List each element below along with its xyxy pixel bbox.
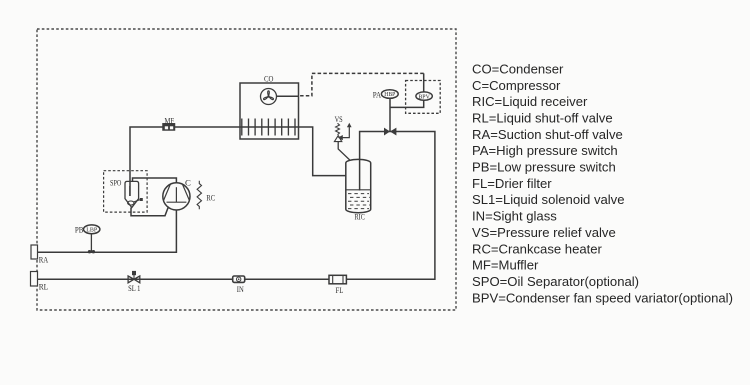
legend — [472, 61, 733, 305]
svg-text:C: C — [185, 178, 191, 188]
svg-text:RC: RC — [206, 193, 215, 203]
liquid receiver RIC — [346, 159, 371, 212]
wire suction: compressor bottom to RA line — [38, 210, 177, 252]
pressure switch PB (LP) — [84, 225, 100, 253]
condenser CO box — [240, 83, 299, 139]
wire PA branch — [389, 98, 391, 131]
svg-text:VS=Pressure relief valve: VS=Pressure relief valve — [472, 225, 616, 240]
svg-text:LBP: LBP — [86, 227, 98, 234]
compressor C — [163, 183, 190, 210]
svg-text:SL1=Liquid solenoid valve: SL1=Liquid solenoid valve — [472, 192, 625, 207]
svg-text:CO=Condenser: CO=Condenser — [472, 61, 564, 76]
svg-text:SL 1: SL 1 — [128, 283, 140, 293]
oil separator SPO dashed box — [104, 171, 148, 212]
svg-text:SPO: SPO — [110, 178, 121, 188]
condenser fins — [242, 119, 295, 136]
wire liquid line: RIC dip tube, valve line, down right side, bottom RL line — [38, 132, 435, 280]
svg-text:SPO=Oil Separator(optional): SPO=Oil Separator(optional) — [472, 274, 639, 289]
muffler MF — [163, 123, 176, 130]
svg-text:FL: FL — [336, 285, 344, 295]
svg-text:PA=High pressure switch: PA=High pressure switch — [472, 143, 618, 158]
condenser fan — [261, 89, 277, 105]
drier filter FL — [329, 275, 346, 284]
svg-text:RA=Suction shut-off valve: RA=Suction shut-off valve — [472, 127, 623, 142]
svg-text:PB=Low pressure switch: PB=Low pressure switch — [472, 160, 616, 175]
svg-text:PA: PA — [373, 90, 382, 100]
wire BPV branch — [390, 73, 424, 107]
svg-text:RIC=Liquid receiver: RIC=Liquid receiver — [472, 94, 588, 109]
svg-text:MF=Muffler: MF=Muffler — [472, 258, 539, 273]
wire fan to condenser box edge — [277, 95, 299, 97]
crankcase heater RC — [197, 181, 201, 210]
wire discharge: SPO riser through MF to condenser — [130, 127, 346, 196]
solenoid valve SL1 — [128, 271, 140, 283]
svg-text:IN: IN — [237, 284, 244, 294]
svg-text:MF: MF — [165, 115, 175, 125]
svg-text:C=Compressor: C=Compressor — [472, 78, 561, 93]
svg-text:RA: RA — [39, 255, 49, 265]
pressure relief valve VS — [334, 123, 351, 161]
svg-text:RIC: RIC — [355, 212, 365, 222]
svg-text:IN=Sight glass: IN=Sight glass — [472, 209, 557, 224]
svg-text:CO: CO — [264, 74, 274, 84]
wire oil return SPO bottom to compressor — [131, 207, 169, 216]
svg-text:FL=Drier filter: FL=Drier filter — [472, 176, 552, 191]
dashed enclosure border — [37, 29, 456, 310]
condenser fan speed variator BPV dashed box — [406, 81, 441, 114]
svg-text:PB: PB — [75, 225, 84, 235]
svg-text:BPV: BPV — [418, 93, 430, 100]
svg-text:BPV=Condenser fan speed variat: BPV=Condenser fan speed variator(optiona… — [472, 290, 733, 305]
svg-text:RL: RL — [39, 282, 49, 292]
wire dashed control line fan to BPV — [299, 73, 424, 95]
variator BPV — [416, 92, 432, 100]
pressure switch PA (HP) — [381, 90, 398, 99]
wire SPO outlet to compressor top — [133, 178, 177, 183]
svg-text:RC=Crankcase heater: RC=Crankcase heater — [472, 241, 603, 256]
shut-off valve on receiver outlet — [384, 128, 396, 136]
svg-text:HBP: HBP — [384, 91, 396, 98]
svg-text:VS: VS — [335, 114, 343, 124]
port RL (liquid shut-off valve) — [31, 272, 38, 287]
port RA (suction shut-off valve) — [31, 245, 38, 259]
sight glass IN — [233, 276, 245, 282]
svg-text:RL=Liquid shut-off valve: RL=Liquid shut-off valve — [472, 111, 613, 126]
oil separator vessel — [125, 181, 143, 207]
